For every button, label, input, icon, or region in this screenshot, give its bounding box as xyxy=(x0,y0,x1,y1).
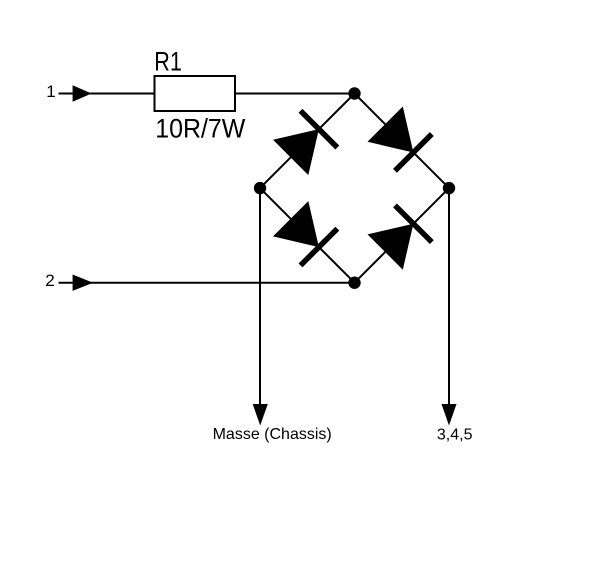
wire bridge edge bottom-right xyxy=(355,188,450,283)
diode D3 bottom-left xyxy=(273,201,337,265)
svg-text:3,4,5: 3,4,5 xyxy=(437,427,473,444)
junction node left xyxy=(254,182,266,194)
arrow to Masse xyxy=(253,404,268,426)
wire bridge edge top-right xyxy=(355,94,450,189)
wire right node down to 3,4,5 xyxy=(448,188,450,405)
input arrow 1 xyxy=(73,85,92,101)
diode D1 top-left xyxy=(273,111,337,175)
svg-text:10R/7W: 10R/7W xyxy=(155,113,246,144)
input arrow 2 xyxy=(73,275,93,291)
svg-text:Masse (Chassis): Masse (Chassis) xyxy=(213,426,332,443)
svg-text:2: 2 xyxy=(45,271,54,290)
svg-text:1: 1 xyxy=(46,82,55,101)
junction node top xyxy=(348,87,360,99)
wire resistor to top node xyxy=(236,93,355,95)
resistor R1 xyxy=(155,76,236,111)
arrow to 3,4,5 xyxy=(442,404,457,426)
wire bridge edge left-top xyxy=(260,94,355,189)
junction node bottom xyxy=(348,277,360,289)
wire bridge edge left-bottom xyxy=(260,188,355,283)
wire input 1 to resistor xyxy=(59,93,155,95)
svg-text:R1: R1 xyxy=(154,47,182,77)
wire left node down to Masse xyxy=(259,188,261,405)
diode D4 bottom-right xyxy=(368,205,432,269)
junction node right xyxy=(443,182,455,194)
wire input 2 to bottom node xyxy=(59,282,355,284)
diode D2 top-right xyxy=(368,107,432,171)
